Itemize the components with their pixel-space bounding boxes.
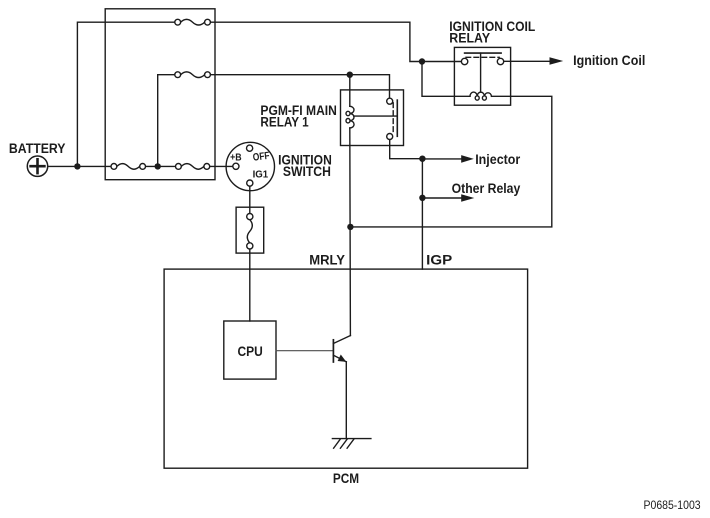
svg-text:CPU: CPU xyxy=(238,344,263,359)
collector diagonal xyxy=(333,336,350,344)
connector fuse box below ignition switch xyxy=(236,207,264,253)
contact circles xyxy=(461,58,467,64)
coil of PGM-FI relay xyxy=(349,75,351,107)
wire battery to fuse box bottom row xyxy=(48,165,111,167)
wire fuse F4 to ignition switch +B xyxy=(210,165,233,167)
fuse box xyxy=(105,9,215,180)
wire IGP down to PCM xyxy=(421,159,423,269)
ground xyxy=(332,439,371,449)
relay IGNITION COIL RELAY xyxy=(454,47,510,105)
contact dashed line xyxy=(466,56,499,58)
fuse F1 (top) xyxy=(175,19,211,25)
node other relay junction xyxy=(419,195,425,201)
wire between fuse F3 and F4 xyxy=(146,165,176,167)
wire junction riser to fuse F2 xyxy=(158,75,175,167)
svg-text:IG1: IG1 xyxy=(253,168,269,180)
svg-text:IGP: IGP xyxy=(426,253,452,268)
wire + arrow to Injector xyxy=(422,158,462,160)
wire fuse F1 to ignition coil relay feed xyxy=(211,22,462,61)
fuse F4 (bottom right) xyxy=(176,164,210,170)
contact bar solid xyxy=(396,100,398,136)
CPU box xyxy=(224,321,276,379)
node battery junction xyxy=(74,163,80,169)
transistor Q1 xyxy=(276,336,350,363)
node injector junction xyxy=(419,156,425,162)
PCM box xyxy=(164,269,527,468)
svg-text:SWITCH: SWITCH xyxy=(283,164,331,179)
relay PGM-FI MAIN RELAY 1 xyxy=(341,75,404,146)
fuse F3 (bottom left) xyxy=(111,164,146,170)
contact bar solid xyxy=(465,52,502,54)
svg-text:MRLY: MRLY xyxy=(309,253,345,268)
svg-text:PCM: PCM xyxy=(333,471,359,486)
link line coil to contact bar xyxy=(354,115,398,117)
wire emitter to ground xyxy=(345,362,347,439)
svg-text:Injector: Injector xyxy=(475,152,521,167)
wire MRLY coil down to transistor xyxy=(349,128,352,336)
contact dashed line xyxy=(392,103,394,134)
wire PGM-FI relay output to IGP node xyxy=(390,140,423,159)
emitter diagonal xyxy=(333,355,346,362)
svg-text:Other Relay: Other Relay xyxy=(452,181,521,196)
svg-text:BATTERY: BATTERY xyxy=(9,141,66,156)
wire + arrow to Ignition Coil xyxy=(504,60,551,62)
wire feed to relay coil left xyxy=(422,62,470,97)
svg-text:+B: +B xyxy=(230,152,242,164)
fuse F2 (middle) xyxy=(175,72,211,78)
base bar xyxy=(332,340,334,362)
svg-text:RELAY 1: RELAY 1 xyxy=(260,114,309,129)
svg-text:Ignition Coil: Ignition Coil xyxy=(573,53,645,68)
armature vertical link xyxy=(480,53,482,91)
wire fuse F2 to PGM-FI main relay xyxy=(211,75,390,98)
base wire from CPU xyxy=(276,350,333,352)
node ignition coil relay feed junction xyxy=(419,58,425,64)
wire + arrow to Other Relay xyxy=(422,197,462,199)
svg-text:OFF: OFF xyxy=(252,150,271,164)
ignition switch SW xyxy=(226,142,274,190)
svg-text:P0685-1003: P0685-1003 xyxy=(644,498,701,512)
node MRLY junction xyxy=(347,224,353,230)
node fuse box junction xyxy=(155,163,161,169)
wire battery riser to top feed xyxy=(77,22,174,166)
wire relay coils link xyxy=(350,96,551,227)
contact circles xyxy=(387,98,393,104)
coil of ignition coil relay xyxy=(470,92,492,96)
wire connector to CPU xyxy=(249,249,251,321)
wire IG1 to connector xyxy=(249,186,251,213)
emitter arrowhead xyxy=(338,355,347,362)
node PGM-FI relay feed junction xyxy=(347,72,353,78)
svg-text:RELAY: RELAY xyxy=(449,30,490,45)
battery BATTERY xyxy=(27,156,47,176)
